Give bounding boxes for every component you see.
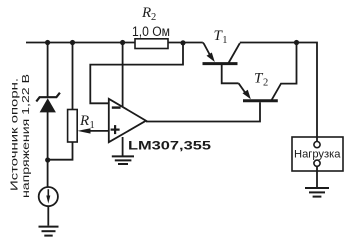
node: R1 bottom junction [45, 157, 50, 162]
wire op-amp V- pin to ground [122, 137, 124, 156]
load top terminal [314, 142, 320, 148]
node: T2 collector / output rail junction [294, 40, 299, 45]
svg-text:2: 2 [263, 78, 268, 89]
resistor R1 (potentiometer) body [68, 110, 78, 143]
node: R1 branch junction [70, 40, 75, 45]
svg-text:1,0 Ом: 1,0 Ом [132, 24, 170, 39]
svg-text:R: R [141, 5, 151, 21]
op-amp minus input symbol [112, 106, 121, 108]
load box Нагрузка [292, 137, 343, 171]
load bottom terminal [314, 160, 320, 166]
current source G1 arrow [47, 189, 49, 198]
transistor T1 emitter with arrow [203, 43, 211, 58]
op-amp U1 triangle [109, 99, 146, 142]
wire top rail left segment [26, 42, 135, 44]
transistor T1 base bar [203, 62, 238, 65]
resistor R2 body [135, 39, 168, 49]
svg-text:LM307,355: LM307,355 [128, 139, 211, 153]
wire top rail mid segment [168, 42, 203, 44]
svg-text:Нагрузка: Нагрузка [294, 149, 341, 161]
wire op-amp V+ from rail [122, 43, 124, 107]
current source G1 circle [39, 187, 58, 206]
ground (left, under current source) [39, 227, 59, 236]
op-amp plus input symbol [111, 125, 120, 134]
transistor T1 base lead to T2 emitter [222, 65, 239, 83]
wire zener branch upper [47, 43, 49, 98]
wire zener branch lower [47, 112, 49, 187]
svg-text:1: 1 [222, 35, 227, 46]
svg-text:напряжения 1,22 В: напряжения 1,22 В [20, 74, 32, 198]
transistor T2 emitter with arrow [239, 83, 247, 94]
ground (under op-amp) [112, 156, 134, 164]
wire feedback from R2 right to op-amp minus input [90, 43, 183, 104]
wire current source to ground [47, 206, 49, 225]
node: R2 right / feedback junction [180, 40, 185, 45]
transistor T2 base bar [243, 99, 278, 102]
zener diode VD1 cathode bar [36, 93, 60, 102]
svg-text:R: R [79, 113, 89, 129]
wire R1 bottom to left node [48, 142, 73, 160]
ground (under load) [305, 188, 329, 197]
wire output rail to load [240, 43, 317, 142]
transistor T1 collector [229, 43, 240, 63]
R1 wiper arrow to op-amp + input [88, 130, 109, 132]
wire load to ground [316, 166, 318, 187]
transistor T2 collector path to rail [272, 43, 297, 101]
svg-text:2: 2 [151, 12, 156, 23]
wire R1 branch upper [72, 43, 74, 110]
node: zener branch junction [45, 40, 50, 45]
zener diode VD1 triangle [40, 98, 56, 112]
node: op-amp V+ junction [120, 40, 125, 45]
wire op-amp output to T2 base [146, 102, 260, 121]
svg-text:Источник опорн.: Источник опорн. [9, 78, 21, 191]
